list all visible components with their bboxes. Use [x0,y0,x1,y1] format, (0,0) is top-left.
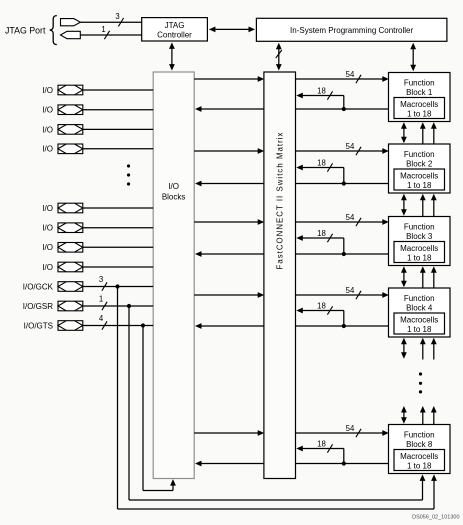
wire: up arrow line 1 (gap 3) [420,266,426,288]
brace for JTAG Port [50,16,57,45]
svg-text:I/O: I/O [42,204,53,213]
wire: up arrow line 1 (gap 2) [420,194,426,217]
svg-text:1 to 18: 1 to 18 [407,254,432,263]
svg-text:FastCONNECT II Switch Matrix: FastCONNECT II Switch Matrix [276,132,285,270]
wire: I/O Blocks to matrix (FB4 row) [194,292,264,298]
bus slash on 1-bit wire [104,31,109,39]
svg-text:Macrocells: Macrocells [400,172,438,181]
wire: 18 macrocell feedback to matrix (FB3) [296,229,344,254]
svg-text:1: 1 [99,295,103,304]
wire: macrocell outputs FB3 to matrix edge [296,253,389,255]
svg-text:I/O: I/O [42,263,53,272]
wire: ISP Controller to Function Block 1 (bidirectional vertical) [410,43,416,72]
I/O pin row 8 [42,262,153,272]
wire: matrix to I/O Blocks (FB8 row outputs) [195,461,264,467]
svg-text:JTAG Port: JTAG Port [5,26,46,36]
wire: GCK bottom run into Function Block 8 [118,474,437,509]
junction dot (FB8 macrocell output) [342,461,346,465]
svg-text:Function: Function [404,431,435,440]
Function Block 4 box [389,288,451,337]
buffer: JTAG input (3-wide) [61,19,81,26]
wire: TDO 1-bit to JTAG Controller [80,34,141,36]
svg-text:Block 4: Block 4 [406,304,433,313]
svg-text:I/O: I/O [42,106,53,115]
svg-text:I/O: I/O [42,86,53,95]
wire: up arrow line 1 (gap 4) [420,338,426,360]
I/O/GCK pin row [23,282,153,292]
svg-text:18: 18 [317,301,326,310]
Macrocells 1 to 18 box (FB8) [394,450,445,471]
svg-text:1 to 18: 1 to 18 [407,110,432,119]
svg-text:18: 18 [317,229,326,238]
svg-text:I/O: I/O [42,224,53,233]
bus slash + label 3 on I/O/GCK wire [99,275,107,291]
I/O/GSR pin row [23,301,153,311]
svg-text:I/O/GSR: I/O/GSR [23,302,53,311]
svg-text:3: 3 [99,275,103,284]
svg-text:I/O/GCK: I/O/GCK [23,282,54,291]
svg-text:54: 54 [346,424,355,433]
svg-text:Function: Function [404,223,435,232]
wire: 54-bus matrix to Function Block 8 [296,424,389,437]
svg-text:DS056_02_101300: DS056_02_101300 [412,515,459,521]
svg-text:1 to 18: 1 to 18 [407,325,432,334]
bus slash on 3-bit wire [118,18,123,26]
wire: I/O/GSR vertical drop [128,306,130,500]
I/O pin row 2 [42,105,153,115]
wire: 54-bus matrix to Function Block 4 [296,286,389,299]
I/O Blocks box [153,72,194,479]
wire: ISP Controller to FastCONNECT matrix (bidirectional with slash) [276,43,282,71]
wire: 54-bus matrix to Function Block 2 [296,142,389,155]
I/O pin row 3 [42,125,153,135]
wire: up arrow line 1 (gap 1) [420,122,426,144]
I/O pin row 6 [42,223,153,233]
svg-text:1 to 18: 1 to 18 [407,462,432,471]
wire: bidirectional vertical between blocks (gap 4) [401,338,407,359]
wire: 18 macrocell feedback to matrix (FB1) [296,86,344,109]
wire: up arrow line 2 (gap 3) [431,266,437,288]
wire: bidirectional vertical between blocks (gap 5) [401,406,407,424]
svg-text:Macrocells: Macrocells [400,100,438,109]
wire: up arrow line 2 (gap 2) [431,194,437,217]
junction dot (FB1 macrocell output) [342,107,346,111]
wire: up arrow line 1 (gap 5) [420,406,426,425]
svg-text:54: 54 [346,70,355,79]
svg-text:Macrocells: Macrocells [400,244,438,253]
svg-text:I/O: I/O [42,125,53,134]
wire: JTAG Controller to I/O Blocks (bidirectional vertical) [169,42,175,70]
wire: macrocell outputs FB1 to matrix edge [296,108,389,110]
wire: bidirectional vertical between blocks (gap 1) [401,122,407,143]
Macrocells 1 to 18 box (FB3) [394,242,445,263]
I/O pin row 1 [42,85,153,95]
JTAG Controller box [142,18,208,41]
wire: matrix to I/O Blocks (FB1 row outputs) [195,106,264,112]
wire: I/O/GTS vertical drop [142,326,144,491]
wire: bidirectional vertical between blocks (gap 3) [401,266,407,287]
svg-text:18: 18 [317,158,326,167]
svg-text:54: 54 [346,213,355,222]
svg-text:Function: Function [404,294,435,303]
svg-text:54: 54 [346,286,355,295]
svg-text:1 to 18: 1 to 18 [407,181,432,190]
svg-text:18: 18 [317,439,326,448]
wire: JTAG Controller to ISP Controller (bidirectional) [209,27,255,33]
svg-text:Macrocells: Macrocells [400,316,438,325]
svg-text:In-System Programming Controll: In-System Programming Controller [290,26,413,35]
svg-text:Block 3: Block 3 [406,232,433,241]
wire: GSR bottom run into Function Block 8 [129,474,425,500]
I/O/GTS pin row [24,321,154,331]
Macrocells 1 to 18 box (FB2) [394,169,445,190]
junction dot on I/O/GCK wire [115,284,119,288]
wire: matrix to I/O Blocks (FB3 row outputs) [195,251,264,257]
svg-text:1: 1 [101,25,105,34]
svg-text:54: 54 [346,142,355,151]
junction dot on I/O/GTS wire [141,323,145,327]
svg-text:I/O: I/O [42,243,53,252]
svg-text:I/O: I/O [42,145,53,154]
junction dot (FB4 macrocell output) [342,324,346,328]
wire: 18 macrocell feedback to matrix (FB8) [296,439,344,463]
svg-text:Block 1: Block 1 [406,88,433,97]
wire: 54-bus matrix to Function Block 1 [296,70,389,83]
wire: 54-bus matrix to Function Block 3 [296,213,389,226]
wire: 18 macrocell feedback to matrix (FB4) [296,301,344,326]
I/O pin row 7 [42,243,153,253]
svg-text:I/O: I/O [168,182,179,191]
svg-text:Macrocells: Macrocells [400,452,438,461]
vertical ellipsis dots (left I/O rows) [127,164,130,185]
wire: up arrow line 2 (gap 4) [431,338,437,360]
wire: I/O/GCK vertical drop [117,287,119,510]
FastCONNECT II Switch Matrix box [264,72,296,479]
svg-text:Function: Function [404,79,435,88]
svg-text:Function: Function [404,150,435,159]
wire: I/O Blocks to matrix (FB2 row) [194,148,264,154]
junction dot (FB3 macrocell output) [342,252,346,256]
svg-text:3: 3 [115,12,119,21]
svg-text:Controller: Controller [157,31,192,40]
wire: up arrow line 2 (gap 1) [431,122,437,144]
vertical ellipsis dots (between FB4 and FB8) [419,372,422,393]
bus slash + label 1 on I/O/GSR wire [99,295,107,311]
svg-text:Block 2: Block 2 [406,160,433,169]
buffer: JTAG output TDO [61,31,81,38]
wire: I/O Blocks to matrix (FB1 row) [194,76,264,82]
wire: matrix to I/O Blocks (FB2 row outputs) [195,181,264,187]
junction dot (FB2 macrocell output) [342,181,346,185]
svg-text:I/O/GTS: I/O/GTS [24,321,53,330]
junction dot on I/O/GSR wire [127,304,131,308]
In-System Programming Controller box [256,18,447,41]
wire: 18 macrocell feedback to matrix (FB2) [296,158,344,183]
Function Block 8 box [389,425,451,474]
Macrocells 1 to 18 box (FB4) [394,313,445,334]
Function Block 1 box [389,73,451,122]
Function Block 3 box [389,217,451,266]
svg-text:18: 18 [317,86,326,95]
wire: I/O Blocks to matrix (FB3 row) [194,219,264,225]
I/O pin row 5 [42,203,153,213]
svg-text:Blocks: Blocks [162,192,186,201]
wire: up arrow line 2 (gap 5) [431,406,437,425]
svg-text:JTAG: JTAG [165,21,185,30]
wire: I/O Blocks to matrix (FB8 row) [194,430,264,436]
wire: macrocell outputs FB2 to matrix edge [296,183,389,185]
wire: macrocell outputs FB8 to matrix edge [296,463,389,465]
Function Block 2 box [389,144,451,193]
svg-text:Block 8: Block 8 [406,440,433,449]
wire: bidirectional vertical between blocks (gap 2) [401,194,407,216]
I/O pin row 4 [42,144,153,154]
wire: matrix to I/O Blocks (FB4 row outputs) [195,323,264,329]
wire: GTS bottom run into I/O Blocks [143,479,176,490]
wire: macrocell outputs FB4 to matrix edge [296,325,389,327]
svg-text:4: 4 [99,314,104,323]
Macrocells 1 to 18 box (FB1) [394,98,445,119]
wire: JTAG 3-bit bus to JTAG Controller [80,21,141,23]
bus slash + label 4 on I/O/GTS wire [99,314,107,330]
